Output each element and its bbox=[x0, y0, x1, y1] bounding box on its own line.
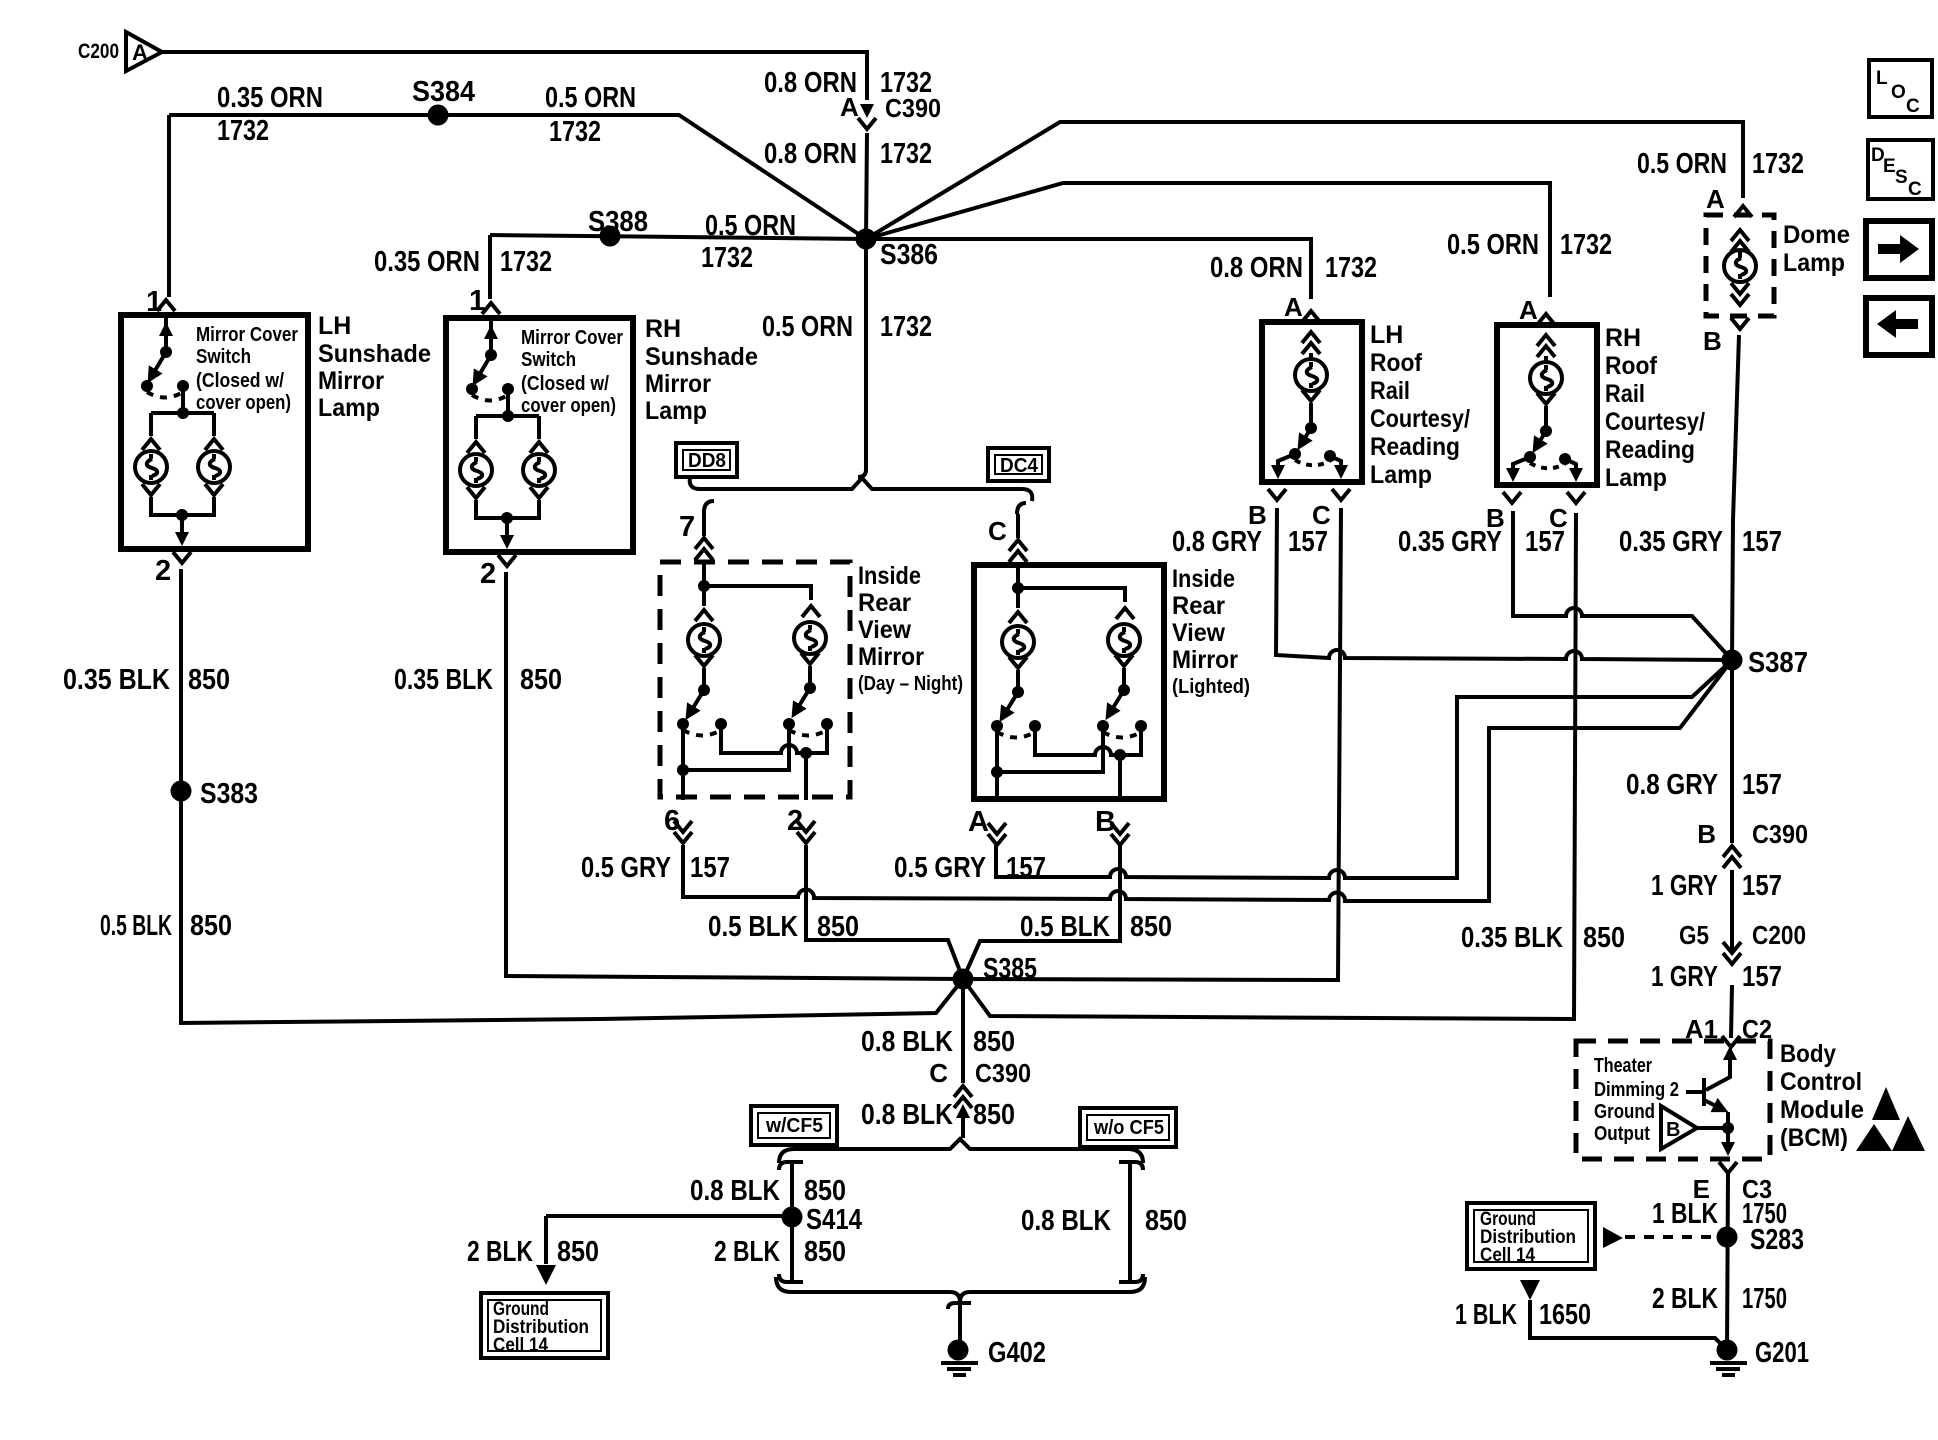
svg-text:0.5 ORN: 0.5 ORN bbox=[1637, 148, 1727, 180]
svg-text:0.5 BLK: 0.5 BLK bbox=[1020, 911, 1110, 943]
svg-text:Mirror Cover: Mirror Cover bbox=[196, 324, 298, 346]
svg-text:Rear: Rear bbox=[858, 589, 911, 617]
svg-text:w/o CF5: w/o CF5 bbox=[1093, 1117, 1164, 1139]
svg-text:157: 157 bbox=[1288, 526, 1328, 558]
svg-text:A: A bbox=[840, 92, 859, 122]
svg-text:S384: S384 bbox=[412, 76, 475, 108]
svg-text:1732: 1732 bbox=[500, 246, 552, 278]
svg-text:0.5 ORN: 0.5 ORN bbox=[1447, 229, 1539, 261]
svg-text:Inside: Inside bbox=[1172, 565, 1235, 593]
svg-text:850: 850 bbox=[817, 911, 859, 943]
svg-text:1732: 1732 bbox=[549, 116, 601, 148]
svg-text:157: 157 bbox=[1525, 526, 1565, 558]
svg-text:1732: 1732 bbox=[1325, 252, 1377, 284]
svg-text:G201: G201 bbox=[1755, 1337, 1809, 1369]
svg-text:S: S bbox=[1895, 167, 1908, 188]
svg-text:B: B bbox=[1703, 326, 1722, 356]
svg-text:C390: C390 bbox=[1752, 819, 1808, 849]
svg-text:(Closed w/: (Closed w/ bbox=[521, 373, 609, 395]
svg-text:850: 850 bbox=[973, 1099, 1015, 1131]
svg-text:B: B bbox=[1666, 1119, 1680, 1141]
svg-text:1650: 1650 bbox=[1539, 1299, 1591, 1331]
svg-text:850: 850 bbox=[188, 664, 230, 696]
svg-text:2 BLK: 2 BLK bbox=[1652, 1283, 1718, 1315]
svg-text:Mirror: Mirror bbox=[858, 643, 924, 671]
svg-text:L: L bbox=[1876, 68, 1888, 89]
svg-text:Roof: Roof bbox=[1370, 349, 1423, 377]
svg-text:0.5 BLK: 0.5 BLK bbox=[100, 910, 172, 942]
svg-text:B: B bbox=[1095, 806, 1116, 838]
svg-text:0.35 GRY: 0.35 GRY bbox=[1398, 526, 1502, 558]
svg-text:S387: S387 bbox=[1748, 647, 1808, 679]
svg-text:E: E bbox=[1883, 156, 1896, 177]
svg-text:850: 850 bbox=[1130, 911, 1172, 943]
svg-text:Courtesy/: Courtesy/ bbox=[1370, 405, 1470, 433]
svg-text:0.5 BLK: 0.5 BLK bbox=[708, 911, 798, 943]
svg-text:0.5 ORN: 0.5 ORN bbox=[545, 82, 636, 114]
svg-text:Rail: Rail bbox=[1605, 380, 1645, 408]
svg-text:6: 6 bbox=[664, 805, 680, 837]
svg-text:0.5 ORN: 0.5 ORN bbox=[705, 210, 796, 242]
svg-text:View: View bbox=[1172, 619, 1226, 647]
svg-text:0.35 BLK: 0.35 BLK bbox=[63, 664, 170, 696]
svg-text:1732: 1732 bbox=[1752, 148, 1804, 180]
svg-text:1732: 1732 bbox=[880, 311, 932, 343]
svg-text:Lamp: Lamp bbox=[1605, 464, 1667, 492]
svg-text:Module: Module bbox=[1780, 1096, 1864, 1124]
svg-text:LH: LH bbox=[318, 312, 351, 340]
svg-text:Reading: Reading bbox=[1605, 436, 1695, 464]
svg-text:Dome: Dome bbox=[1783, 221, 1850, 249]
svg-text:Lamp: Lamp bbox=[318, 394, 380, 422]
svg-text:C200: C200 bbox=[1752, 920, 1806, 950]
svg-text:850: 850 bbox=[1145, 1205, 1187, 1237]
svg-text:Roof: Roof bbox=[1605, 352, 1658, 380]
svg-text:Reading: Reading bbox=[1370, 433, 1460, 461]
svg-text:0.8 BLK: 0.8 BLK bbox=[690, 1175, 780, 1207]
svg-text:G5: G5 bbox=[1679, 920, 1709, 950]
svg-text:Rear: Rear bbox=[1172, 592, 1225, 620]
svg-text:O: O bbox=[1891, 82, 1906, 103]
svg-text:Body: Body bbox=[1780, 1040, 1836, 1068]
svg-text:Sunshade: Sunshade bbox=[645, 343, 758, 371]
svg-text:(BCM): (BCM) bbox=[1780, 1124, 1848, 1152]
svg-text:S388: S388 bbox=[588, 206, 648, 238]
svg-text:B: B bbox=[1697, 819, 1716, 849]
svg-text:0.35 GRY: 0.35 GRY bbox=[1619, 526, 1723, 558]
svg-text:2 BLK: 2 BLK bbox=[714, 1236, 780, 1268]
svg-text:C390: C390 bbox=[885, 93, 941, 123]
svg-text:0.35 BLK: 0.35 BLK bbox=[394, 664, 493, 696]
svg-text:157: 157 bbox=[1006, 852, 1046, 884]
svg-text:S385: S385 bbox=[983, 953, 1037, 985]
svg-text:Courtesy/: Courtesy/ bbox=[1605, 408, 1705, 436]
svg-text:A: A bbox=[132, 40, 148, 65]
svg-text:850: 850 bbox=[190, 910, 232, 942]
svg-text:cover open): cover open) bbox=[521, 395, 616, 417]
svg-text:157: 157 bbox=[1742, 961, 1782, 993]
svg-text:Mirror: Mirror bbox=[318, 367, 384, 395]
svg-text:S386: S386 bbox=[880, 239, 938, 271]
svg-text:1732: 1732 bbox=[701, 242, 753, 274]
svg-text:0.35 ORN: 0.35 ORN bbox=[217, 82, 323, 114]
svg-text:850: 850 bbox=[520, 664, 562, 696]
svg-text:Theater: Theater bbox=[1594, 1055, 1652, 1077]
svg-text:1732: 1732 bbox=[217, 115, 269, 147]
svg-text:Lamp: Lamp bbox=[1370, 461, 1432, 489]
svg-text:850: 850 bbox=[1583, 922, 1625, 954]
svg-text:0.8 BLK: 0.8 BLK bbox=[861, 1099, 953, 1131]
svg-text:RH: RH bbox=[645, 315, 681, 343]
svg-text:2: 2 bbox=[480, 558, 496, 590]
svg-text:Mirror: Mirror bbox=[1172, 646, 1238, 674]
svg-text:w/CF5: w/CF5 bbox=[765, 1115, 823, 1137]
svg-text:G402: G402 bbox=[988, 1337, 1046, 1369]
svg-text:1 GRY: 1 GRY bbox=[1651, 870, 1718, 902]
svg-text:cover open): cover open) bbox=[196, 392, 291, 414]
svg-text:C: C bbox=[929, 1058, 948, 1088]
svg-text:Dimming 2: Dimming 2 bbox=[1594, 1079, 1679, 1101]
svg-text:C390: C390 bbox=[975, 1058, 1031, 1088]
svg-text:C: C bbox=[1906, 96, 1920, 117]
svg-text:0.8 BLK: 0.8 BLK bbox=[1021, 1205, 1111, 1237]
svg-text:Rail: Rail bbox=[1370, 377, 1410, 405]
svg-text:850: 850 bbox=[804, 1236, 846, 1268]
svg-text:Cell 14: Cell 14 bbox=[493, 1335, 548, 1356]
svg-text:0.35 BLK: 0.35 BLK bbox=[1461, 922, 1563, 954]
svg-text:850: 850 bbox=[557, 1236, 599, 1268]
svg-text:View: View bbox=[858, 616, 912, 644]
svg-text:0.8 GRY: 0.8 GRY bbox=[1626, 769, 1718, 801]
svg-text:0.5 GRY: 0.5 GRY bbox=[581, 852, 671, 884]
svg-text:(Day – Night): (Day – Night) bbox=[858, 673, 963, 695]
svg-text:7: 7 bbox=[679, 511, 695, 543]
svg-text:DC4: DC4 bbox=[1000, 455, 1039, 477]
svg-text:LH: LH bbox=[1370, 321, 1403, 349]
svg-text:157: 157 bbox=[1742, 769, 1782, 801]
svg-text:157: 157 bbox=[690, 852, 730, 884]
svg-text:0.8 ORN: 0.8 ORN bbox=[764, 138, 857, 170]
svg-text:2: 2 bbox=[155, 555, 171, 587]
svg-text:1 GRY: 1 GRY bbox=[1651, 961, 1718, 993]
svg-text:C: C bbox=[1908, 179, 1922, 200]
svg-text:2 BLK: 2 BLK bbox=[467, 1236, 533, 1268]
svg-text:Lamp: Lamp bbox=[1783, 249, 1845, 277]
svg-text:Sunshade: Sunshade bbox=[318, 340, 431, 368]
svg-text:0.5 ORN: 0.5 ORN bbox=[762, 311, 853, 343]
svg-text:C: C bbox=[988, 516, 1007, 546]
svg-text:0.5 GRY: 0.5 GRY bbox=[894, 852, 986, 884]
svg-text:Cell 14: Cell 14 bbox=[1480, 1245, 1535, 1266]
svg-text:A: A bbox=[968, 806, 989, 838]
svg-text:Mirror Cover: Mirror Cover bbox=[521, 327, 623, 349]
svg-text:0.8 BLK: 0.8 BLK bbox=[861, 1026, 953, 1058]
svg-text:A: A bbox=[1519, 295, 1538, 325]
svg-text:Mirror: Mirror bbox=[645, 370, 711, 398]
svg-text:C200: C200 bbox=[78, 40, 119, 63]
svg-text:Switch: Switch bbox=[521, 349, 576, 371]
svg-text:DD8: DD8 bbox=[688, 450, 726, 472]
svg-text:(Lighted): (Lighted) bbox=[1172, 676, 1250, 698]
svg-text:S383: S383 bbox=[200, 778, 258, 810]
svg-text:1732: 1732 bbox=[1560, 229, 1612, 261]
svg-text:157: 157 bbox=[1742, 870, 1782, 902]
svg-text:Inside: Inside bbox=[858, 562, 921, 590]
svg-text:157: 157 bbox=[1742, 526, 1782, 558]
svg-text:S414: S414 bbox=[806, 1204, 862, 1236]
svg-text:Ground: Ground bbox=[1594, 1101, 1655, 1123]
svg-text:RH: RH bbox=[1605, 324, 1641, 352]
svg-text:0.35 ORN: 0.35 ORN bbox=[374, 246, 480, 278]
svg-text:A: A bbox=[1706, 184, 1725, 214]
svg-text:2: 2 bbox=[787, 805, 803, 837]
svg-text:Output: Output bbox=[1594, 1123, 1650, 1145]
svg-text:0.8 GRY: 0.8 GRY bbox=[1172, 526, 1262, 558]
svg-text:850: 850 bbox=[973, 1026, 1015, 1058]
svg-text:1 BLK: 1 BLK bbox=[1455, 1299, 1517, 1331]
svg-text:S283: S283 bbox=[1750, 1224, 1804, 1256]
svg-text:850: 850 bbox=[804, 1175, 846, 1207]
svg-text:1750: 1750 bbox=[1742, 1283, 1787, 1315]
svg-text:1732: 1732 bbox=[880, 138, 932, 170]
svg-text:Lamp: Lamp bbox=[645, 397, 707, 425]
svg-text:(Closed w/: (Closed w/ bbox=[196, 370, 284, 392]
svg-text:Switch: Switch bbox=[196, 346, 251, 368]
svg-text:Control: Control bbox=[1780, 1068, 1862, 1096]
svg-text:0.8 ORN: 0.8 ORN bbox=[1210, 252, 1303, 284]
svg-text:1 BLK: 1 BLK bbox=[1652, 1198, 1718, 1230]
svg-text:A: A bbox=[1284, 292, 1303, 322]
